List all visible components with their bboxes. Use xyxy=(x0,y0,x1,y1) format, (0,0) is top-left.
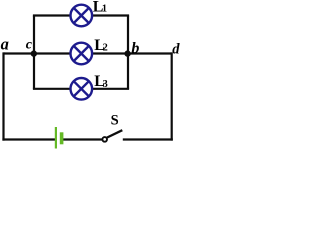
wire: row3 left stub xyxy=(33,88,70,90)
switch S pivot circle xyxy=(102,137,107,142)
wire: row1 left stub xyxy=(33,14,70,16)
lamp L2 xyxy=(71,43,93,65)
wire: d vertical down xyxy=(171,52,173,140)
svg-text:2: 2 xyxy=(103,42,108,53)
lamp L3 xyxy=(71,78,93,100)
lamp L1 xyxy=(71,5,93,27)
wire: right bus b vertical xyxy=(127,16,129,89)
svg-text:c: c xyxy=(26,38,33,53)
wire: a vertical down xyxy=(2,52,4,140)
battery: short thick plate xyxy=(60,132,64,144)
svg-text:a: a xyxy=(1,35,9,54)
switch S blade xyxy=(107,130,122,137)
svg-text:S: S xyxy=(111,113,119,129)
wire: row2 a to lamp2 xyxy=(4,52,71,54)
node b junction dot xyxy=(124,50,130,56)
wire: row1 right stub xyxy=(92,14,129,16)
svg-text:1: 1 xyxy=(102,4,107,15)
svg-text:3: 3 xyxy=(103,79,108,90)
wire: bottom left to battery xyxy=(2,138,55,140)
wire: switch to bottom right xyxy=(123,138,173,140)
wire: row2 lamp2 to d xyxy=(92,52,171,54)
svg-text:d: d xyxy=(172,42,180,58)
wire: row3 right stub xyxy=(92,88,129,90)
battery: long thin plate xyxy=(55,127,57,149)
wire: left bus c vertical xyxy=(33,16,35,89)
wire: battery to switch xyxy=(63,138,102,140)
node c junction dot xyxy=(31,50,37,56)
svg-text:b: b xyxy=(131,40,139,57)
